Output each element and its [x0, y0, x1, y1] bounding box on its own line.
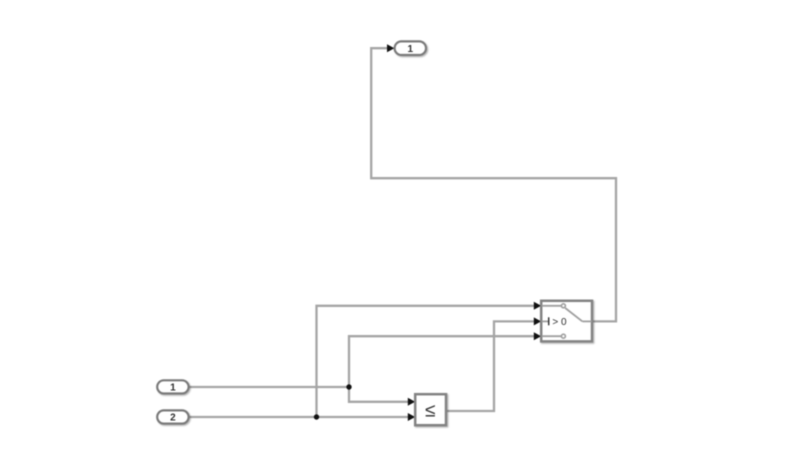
switch block U1 [541, 301, 592, 342]
wire branch In2 up to Switch input 1 [317, 306, 536, 417]
svg-text:1: 1 [408, 44, 414, 55]
junction node on In1 wire [346, 384, 351, 389]
relational operator <= block [415, 394, 446, 425]
wire from RelOp output to Switch control input 2 [446, 321, 536, 411]
switch internal: lower contact stub [542, 335, 562, 337]
wire branch In1 down to RelOp input 1 [349, 387, 410, 402]
svg-text:1: 1 [170, 382, 176, 393]
arrowhead at Switch input 3 [534, 332, 541, 340]
outport Out1 [395, 41, 426, 55]
wire branch In1 up to Switch data input 3 [349, 336, 536, 387]
inport In2 [157, 410, 188, 423]
junction node on In2 wire [314, 414, 319, 419]
switch internal: input 1 stub to upper contact [542, 305, 562, 307]
arrowhead at RelOp input 1 [408, 398, 415, 406]
switch internal: control input stub [542, 320, 548, 322]
switch internal: upper contact circle [561, 304, 565, 308]
svg-text:2: 2 [170, 413, 176, 424]
wire from Switch output to Out1 [371, 48, 616, 321]
arrowhead at Switch input 1 [534, 302, 541, 310]
svg-text:≤: ≤ [425, 400, 435, 421]
arrowhead at Switch input 2 [534, 317, 541, 325]
switch internal: output line to right edge [582, 320, 591, 322]
inport In1 [157, 380, 188, 393]
wire from In1 to branch junction [189, 386, 350, 388]
switch internal: lower contact circle [561, 334, 565, 338]
svg-text:> 0: > 0 [552, 317, 567, 328]
switch criteria label "> 0" [552, 317, 567, 328]
arrowhead at Out1 [387, 44, 394, 52]
switch internal: selector arm diagonal [565, 308, 582, 321]
arrowhead at RelOp input 2 [408, 413, 415, 421]
switch internal: threshold tick mark [548, 317, 549, 325]
wire from In2 to RelOp input 2 [189, 416, 410, 418]
